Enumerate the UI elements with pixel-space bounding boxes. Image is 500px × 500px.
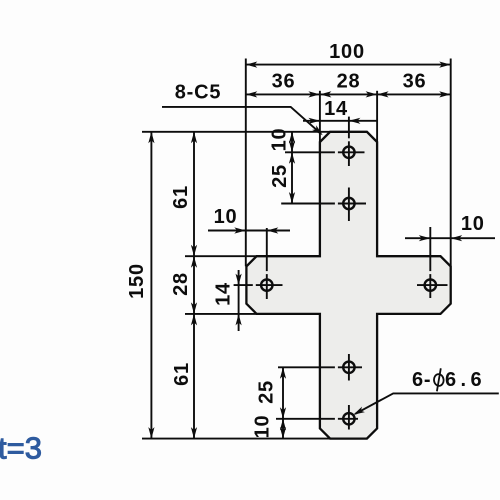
svg-text:14: 14 [213, 282, 235, 306]
dimension 150 line [150, 132, 152, 439]
svg-text:36: 36 [272, 71, 296, 93]
svg-text:100: 100 [329, 41, 365, 63]
svg-text:25: 25 [269, 164, 291, 188]
hole H1 center lines [285, 151, 335, 153]
svg-text:10: 10 [214, 206, 238, 228]
hole H2 center lines [281, 203, 335, 205]
svg-text:10: 10 [269, 128, 291, 152]
dimension 10 left arm line [208, 230, 290, 232]
svg-text:36: 36 [403, 71, 427, 93]
svg-text:t=3: t=3 [0, 431, 42, 466]
hole H3 (phi 6.6) [261, 279, 272, 290]
svg-text:28: 28 [170, 272, 192, 296]
svg-text:8-C5: 8-C5 [175, 82, 222, 104]
hole H5 (phi 6.6) [343, 362, 354, 373]
hole H6 center lines [276, 418, 335, 420]
svg-text:6-: 6- [412, 369, 431, 391]
svg-text:28: 28 [337, 71, 361, 93]
hole H4 (phi 6.6) [425, 279, 436, 290]
dimension 10 bottom arrows [280, 419, 286, 431]
svg-text:25: 25 [256, 380, 278, 404]
extension line: overall left [245, 59, 247, 267]
dimension 25 top arrows [289, 152, 295, 164]
dimension 14 arm line [238, 270, 240, 331]
extension line: bar left up [319, 91, 321, 142]
dimension 14 top line [303, 120, 377, 122]
extension line: top edge left [142, 131, 330, 133]
svg-text:10: 10 [252, 415, 274, 439]
extension line: arm top left [185, 255, 257, 257]
extension line: arm bottom left [185, 313, 257, 315]
svg-text:61: 61 [171, 362, 193, 386]
svg-text:6.6: 6.6 [445, 369, 486, 391]
extension line: bottom edge left [142, 438, 330, 440]
extension line: overall right [450, 59, 452, 266]
svg-text:61: 61 [170, 185, 192, 209]
dimension 100 line [246, 64, 451, 66]
phi symbol [433, 368, 444, 391]
svg-text:150: 150 [126, 263, 148, 299]
hole H4 center lines [417, 284, 448, 286]
dimension 10 top hole line [291, 132, 293, 204]
dimension 10 right arm line [405, 237, 495, 239]
hole H6 (phi 6.6) [343, 413, 354, 424]
hole H1 (phi 6.6) [343, 147, 354, 158]
label 8-C5 leader [162, 107, 321, 134]
dimension 25 bottom line [282, 367, 284, 438]
svg-text:10: 10 [461, 213, 485, 235]
dimension 36-28-36 line [246, 93, 451, 95]
hole H5 center lines [278, 366, 335, 368]
hole H2 (phi 6.6) [343, 198, 354, 209]
svg-text:14: 14 [324, 98, 348, 120]
plate outline (cross-shaped plate, 8 chamfers C5) [246, 132, 450, 439]
hole H3 center lines [234, 284, 253, 286]
label 6-phi6.6 leader [355, 393, 499, 414]
dimension 61-28-61 line [193, 132, 195, 439]
extension line: bar right up [376, 91, 378, 142]
